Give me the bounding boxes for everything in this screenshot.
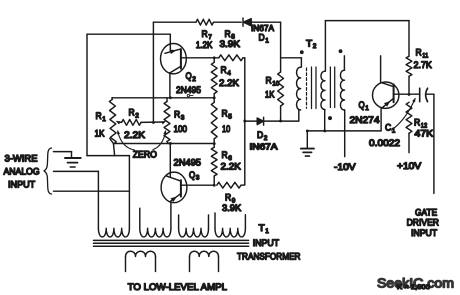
Q1 base bar bbox=[393, 84, 395, 102]
T1 secondary B right lead bbox=[218, 257, 220, 272]
transistor Q2 (body) bbox=[161, 44, 187, 74]
ZERO leader arrow to R3 bbox=[153, 132, 166, 150]
diode D2 cathode bar bbox=[263, 117, 265, 125]
svg-text:TO LOW-LEVEL AMPL: TO LOW-LEVEL AMPL bbox=[128, 282, 227, 293]
C1 leader arrow bbox=[392, 99, 416, 131]
svg-text:2.2K: 2.2K bbox=[221, 161, 242, 172]
T2 primary bottom lead bbox=[298, 110, 300, 121]
capacitor C1 left plate bbox=[419, 88, 421, 102]
T2 core line d bbox=[334, 67, 336, 108]
svg-text:IN67A: IN67A bbox=[251, 23, 274, 33]
Q1 base lead from T2 bbox=[380, 56, 382, 83]
resistor R4 bbox=[211, 62, 217, 93]
svg-text:2: 2 bbox=[313, 43, 317, 50]
node Q1 collector / R11 / R12 / C1 bbox=[408, 93, 411, 96]
svg-text:R: R bbox=[225, 193, 231, 204]
R4 top lead bbox=[213, 58, 215, 63]
T2 core line a bbox=[311, 67, 313, 109]
wire D1 corner down (x=280.6) bbox=[280, 22, 282, 72]
ground bar 3 (T2) bbox=[305, 155, 309, 157]
svg-text:2N495: 2N495 bbox=[174, 157, 202, 168]
wire Q2 base to R4 node bbox=[181, 57, 219, 59]
wire R7 to D1 bbox=[214, 21, 242, 23]
svg-text:3.9K: 3.9K bbox=[222, 203, 242, 214]
svg-text:IN67A: IN67A bbox=[250, 142, 278, 152]
svg-text:R: R bbox=[202, 29, 208, 40]
wire C1 to corner bbox=[426, 93, 434, 95]
ground stub (T2) bbox=[306, 131, 308, 148]
Q2 emitter lead from top wire bbox=[169, 34, 171, 51]
input line 1 (to ground) bbox=[54, 151, 72, 153]
R10 bottom lead bbox=[280, 106, 282, 121]
resistor R6 bbox=[211, 147, 217, 176]
svg-text:10: 10 bbox=[272, 80, 279, 87]
wire top rail y=20.6 bbox=[325, 20, 409, 22]
diode D2 (triangle pointing right) bbox=[257, 118, 263, 125]
resistor R12 bbox=[406, 102, 412, 133]
svg-text:4: 4 bbox=[227, 70, 231, 77]
T1 winding 3 bbox=[179, 228, 209, 237]
Q2 base bar bbox=[180, 49, 182, 68]
ground stub bbox=[71, 152, 73, 158]
T1 winding 1 (input primary) bbox=[98, 228, 129, 237]
wire top-left horizontal (R7/D1 line) left segment bbox=[153, 21, 196, 23]
resistor R1 (vertical, slightly tilted) bbox=[109, 99, 116, 144]
svg-text:3-WIRE: 3-WIRE bbox=[5, 153, 38, 164]
Q2 collector (inside) bbox=[170, 66, 181, 73]
svg-text:R: R bbox=[222, 150, 228, 161]
T1 winding 4 bbox=[215, 228, 245, 237]
node Q3 collector junction bbox=[169, 142, 172, 145]
resistor R10 bbox=[278, 72, 284, 106]
Q1 emitter (inside, arrow into bar) bbox=[381, 98, 393, 108]
svg-text:ANALOG: ANALOG bbox=[4, 167, 40, 178]
Q3 collector (inside) bbox=[166, 176, 181, 181]
svg-text:Q: Q bbox=[359, 100, 365, 111]
wire vertical from R7 line down to R2 wiper line bbox=[152, 22, 154, 122]
svg-text:47K: 47K bbox=[415, 128, 434, 139]
svg-text:1: 1 bbox=[265, 37, 269, 44]
svg-text:R: R bbox=[96, 111, 102, 122]
svg-text:D: D bbox=[259, 33, 265, 44]
ground bar 1 (T2) bbox=[301, 148, 314, 150]
T2 right winding bottom lead (through rail to -10V) bbox=[344, 110, 346, 157]
resistor R9 (horizontal zigzag) bbox=[217, 182, 241, 188]
svg-text:-10V: -10V bbox=[334, 162, 356, 173]
Q1 base (inside diagonal) bbox=[381, 82, 394, 86]
svg-text:R: R bbox=[221, 65, 227, 76]
resistor R7 bbox=[196, 19, 214, 25]
Q2 collector lead down bbox=[169, 73, 171, 98]
T2 middle winding top lead (to top rail) bbox=[324, 21, 326, 72]
svg-text:2.2K: 2.2K bbox=[219, 78, 240, 89]
transistor Q1 (circle) bbox=[373, 82, 399, 108]
T2 primary winding bbox=[297, 67, 301, 110]
wire emitter rail y=130.9 bbox=[307, 130, 381, 132]
T2 secondary phasing dot (bottom) bbox=[328, 116, 332, 120]
resistor R3 bbox=[164, 102, 170, 142]
T2 middle winding bottom lead bbox=[324, 110, 326, 131]
R10 top bar bbox=[281, 57, 302, 59]
diode D1 (triangle, pointing left) bbox=[244, 19, 252, 26]
svg-text:SeekIC.com: SeekIC.com bbox=[377, 276, 454, 291]
svg-text:3.9K: 3.9K bbox=[220, 39, 241, 50]
svg-text:5: 5 bbox=[228, 113, 232, 120]
ZERO leader arrow to R1 bbox=[118, 132, 135, 151]
T2 middle winding bbox=[321, 71, 325, 109]
svg-text:11: 11 bbox=[422, 52, 428, 59]
svg-text:INPUT: INPUT bbox=[411, 228, 437, 239]
Q3 base bar bbox=[180, 180, 182, 196]
diode D1 (cathode bar) bbox=[242, 18, 244, 26]
wire lower horizontal to T1 (y=155.6) bbox=[87, 155, 129, 157]
svg-text:R: R bbox=[266, 76, 272, 87]
T2 primary phasing dot bbox=[300, 50, 304, 54]
T1 winding 4 right stub bbox=[244, 215, 246, 229]
ground bar 3 bbox=[70, 166, 75, 168]
T2 core line b bbox=[315, 67, 317, 109]
small mark under 2N495 bbox=[187, 94, 193, 96]
node R4/R5 junction bbox=[213, 96, 216, 99]
R5 top lead bbox=[213, 98, 215, 103]
svg-text:T: T bbox=[259, 223, 265, 234]
R11 bottom lead bbox=[408, 76, 410, 94]
svg-text:R: R bbox=[414, 118, 420, 129]
svg-text:Q: Q bbox=[189, 170, 195, 181]
node R6/R9/Q3-base junction bbox=[213, 184, 216, 187]
node R10 bottom bbox=[279, 119, 282, 122]
ground bar 2 (T2) bbox=[303, 151, 312, 153]
wire D2 to T2 primary bbox=[264, 120, 299, 122]
node Q2 base / R4 / R8 bbox=[213, 56, 216, 59]
T2 core line c bbox=[329, 67, 331, 108]
Q2 emitter (inside, with arrow into bar) bbox=[165, 49, 181, 53]
svg-text:100: 100 bbox=[174, 124, 188, 135]
svg-text:0.0022: 0.0022 bbox=[369, 138, 400, 149]
svg-text:+10V: +10V bbox=[397, 161, 422, 172]
T1 secondary A left lead bbox=[125, 257, 127, 272]
wire node row y=97.8 bbox=[112, 97, 214, 99]
Q3 emitter (inside, arrow into bar) bbox=[170, 194, 181, 202]
node ground tap bbox=[306, 129, 309, 132]
wire down to T1 primary right lead bbox=[128, 156, 130, 229]
R1 top corner bbox=[111, 98, 113, 100]
Q3 base wire to R6/R9 node bbox=[181, 184, 214, 186]
svg-text:D: D bbox=[257, 130, 263, 141]
input brace bbox=[44, 148, 52, 194]
T1 core line 2 bbox=[94, 242, 249, 244]
node D2 branch on x=244.8 bbox=[243, 120, 246, 123]
ground bar 2 bbox=[68, 162, 78, 164]
svg-text:ZERO: ZERO bbox=[133, 150, 157, 161]
svg-text:Q: Q bbox=[186, 71, 192, 82]
input line 2 bbox=[54, 170, 99, 172]
wire D1 to corner bbox=[251, 21, 280, 23]
svg-text:1K: 1K bbox=[265, 90, 275, 101]
node T2 middle winding bottom bbox=[323, 129, 326, 132]
svg-text:R: R bbox=[416, 48, 422, 59]
T2 right winding top lead bbox=[343, 56, 345, 70]
Q1 emitter lead down bbox=[380, 108, 382, 130]
T1 winding 4 left stub bbox=[214, 213, 216, 228]
svg-text:2N274: 2N274 bbox=[350, 115, 380, 126]
transistor Q3 (body) bbox=[161, 172, 187, 203]
svg-text:3: 3 bbox=[181, 114, 185, 121]
T1 winding 3 left stub bbox=[178, 215, 180, 228]
svg-text:2: 2 bbox=[192, 76, 196, 83]
R6 top lead bbox=[213, 144, 215, 148]
R4 bottom lead bbox=[213, 94, 215, 98]
svg-text:1K: 1K bbox=[95, 129, 106, 140]
svg-text:T: T bbox=[306, 38, 312, 49]
Q1 collector wire to C1 node bbox=[394, 93, 420, 95]
T1 winding 2 bbox=[140, 228, 171, 237]
R3 top lead bbox=[166, 98, 168, 102]
svg-text:TRANSFORMER: TRANSFORMER bbox=[237, 252, 301, 263]
T1 secondary B left lead bbox=[189, 257, 191, 272]
R5 bottom lead bbox=[213, 139, 215, 144]
input line 3 bbox=[54, 190, 130, 192]
node R7-line meets R2 line bbox=[152, 121, 155, 124]
R6 bottom lead bbox=[213, 176, 215, 185]
svg-text:INPUT: INPUT bbox=[253, 238, 280, 249]
svg-text:10: 10 bbox=[222, 124, 230, 135]
svg-text:2: 2 bbox=[135, 112, 139, 119]
capacitor C1 right plate (curved) bbox=[426, 88, 428, 102]
T2 right winding phasing dot bbox=[339, 49, 343, 53]
svg-text:1: 1 bbox=[365, 105, 369, 112]
T1 secondary A right lead bbox=[155, 257, 157, 272]
wire R9 to vertical bbox=[241, 184, 245, 186]
wire vertical x=244.8 (R8 corner down to R9) bbox=[244, 58, 246, 185]
node R5/R6 junction bbox=[213, 142, 216, 145]
resistor R2 bbox=[122, 120, 141, 126]
Q3 emitter lead down to T1 bbox=[170, 202, 172, 229]
wire top horizontal to Q2 emitter bbox=[87, 33, 170, 35]
T1 secondary A bbox=[126, 251, 156, 256]
svg-text:1: 1 bbox=[102, 116, 106, 123]
resistor R8 (horizontal zigzag) bbox=[219, 55, 243, 61]
T1 secondary B bbox=[190, 251, 219, 256]
T1 core line 3 bbox=[94, 245, 249, 247]
T2 primary top lead bbox=[300, 58, 302, 67]
T1 winding 3 right stub bbox=[208, 215, 210, 228]
resistor R11 bbox=[406, 56, 412, 76]
node Q2 collector junction bbox=[169, 96, 172, 99]
svg-text:3: 3 bbox=[196, 175, 200, 182]
R3 bottom lead bbox=[167, 142, 168, 144]
T2 core dashed line bbox=[306, 68, 308, 108]
input line 2 down to T1 bbox=[97, 171, 99, 228]
svg-text:R: R bbox=[129, 108, 135, 119]
svg-text:2.7K: 2.7K bbox=[414, 60, 433, 71]
wire to D2 bbox=[245, 120, 257, 122]
wire R8 to corner bbox=[243, 57, 245, 59]
R12 bottom lead bbox=[408, 133, 410, 152]
potentiometer R2 wiper line left arrow (into R1) bbox=[119, 121, 122, 123]
wire row y=143.5 (R1 bottom to R5/R6 node) bbox=[110, 139, 214, 144]
svg-text:C: C bbox=[385, 123, 391, 134]
svg-text:1.2K: 1.2K bbox=[196, 40, 213, 51]
Q3 collector lead bbox=[169, 144, 171, 178]
T1 core line 1 bbox=[94, 239, 249, 241]
wire left vertical (x=87) bbox=[86, 34, 88, 155]
T1 winding 2 left stub bbox=[139, 208, 141, 228]
resistor R5 bbox=[211, 102, 217, 139]
R1 bottom lead to lower wire bbox=[114, 144, 115, 156]
svg-text:2.2K: 2.2K bbox=[124, 130, 146, 141]
wire gate driver down bbox=[433, 94, 435, 193]
svg-text:R: R bbox=[222, 109, 228, 120]
svg-text:1: 1 bbox=[265, 228, 269, 235]
svg-text:R: R bbox=[174, 110, 180, 121]
wire R2 to R3 wiper arrow bbox=[141, 121, 163, 123]
wire rail down to R11 bbox=[408, 21, 410, 57]
svg-text:INPUT: INPUT bbox=[8, 180, 35, 191]
T2 right winding bbox=[340, 70, 344, 110]
ground bar 1 bbox=[65, 157, 81, 159]
